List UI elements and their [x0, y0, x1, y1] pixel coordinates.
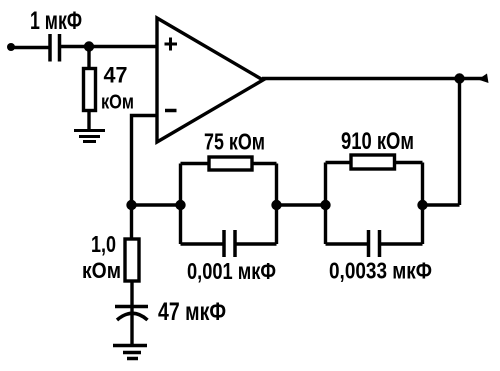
- resistor R2 1,0 кОм: [125, 239, 139, 281]
- op-amp + pin mark: [165, 38, 178, 51]
- wire R1 to ground: [87, 110, 90, 130]
- wire C3 to ground: [130, 314, 133, 346]
- svg-text:75 кОм: 75 кОм: [204, 129, 265, 155]
- RC1 bottom wire right: [237, 242, 277, 245]
- wire bus node down to R2: [130, 205, 133, 240]
- RC2 top wire left: [326, 161, 353, 164]
- svg-text:47: 47: [104, 63, 128, 88]
- svg-text:1 мкФ: 1 мкФ: [30, 7, 82, 35]
- output terminal tick: [478, 74, 489, 84]
- svg-text:910 кОм: 910 кОм: [341, 128, 414, 155]
- wire R2 to C3: [130, 281, 133, 312]
- RC2 bottom wire left: [326, 242, 368, 245]
- capacitor C4 0,0033 мкФ: [369, 230, 380, 257]
- wire C1 to op-amp + input: [61, 45, 158, 48]
- wire op-amp inverting input down to bus: [132, 116, 159, 206]
- RC2 top wire right: [394, 161, 423, 164]
- RC1 top wire left: [181, 162, 211, 165]
- svg-text:47 мкФ: 47 мкФ: [158, 298, 226, 326]
- op-amp - pin mark: [165, 109, 177, 113]
- wire input to C1: [11, 46, 51, 49]
- wire bus: inverting node to RC1 left: [132, 203, 181, 206]
- resistor R4 910 кОм: [351, 155, 395, 169]
- node RC2 right: [417, 200, 427, 210]
- capacitor C3 47 мкФ (polarized): [115, 307, 148, 321]
- node RC1 left: [175, 200, 185, 210]
- RC2 right vertical wire: [421, 163, 424, 245]
- wire RC1 right to RC2 left: [277, 203, 326, 206]
- capacitor C1 1 мкФ: [50, 34, 60, 62]
- svg-text:1,0: 1,0: [91, 231, 116, 257]
- wire to RC2 right node: [423, 203, 460, 206]
- RC1 top wire right: [251, 162, 277, 165]
- node RC1 right: [271, 200, 281, 210]
- input terminal: [7, 43, 15, 51]
- capacitor C2 0,001 мкФ: [224, 230, 235, 257]
- svg-text:0,0033 мкФ: 0,0033 мкФ: [329, 258, 432, 284]
- wire node A down to R1: [87, 47, 90, 68]
- node RC2 left: [320, 200, 330, 210]
- RC1 right vertical wire: [275, 164, 278, 245]
- ground (bottom): [113, 346, 147, 359]
- RC2 bottom wire right: [381, 242, 423, 245]
- svg-text:0,001 мкФ: 0,001 мкФ: [187, 258, 276, 284]
- RC1 left vertical wire: [179, 164, 182, 245]
- ground (top left): [74, 131, 105, 142]
- node inverting bus: [126, 200, 136, 210]
- wire output: [262, 77, 487, 80]
- resistor R1 47 кОм: [84, 69, 96, 111]
- resistor R3 75 кОм: [209, 157, 252, 170]
- op-amp U1: [157, 18, 263, 142]
- svg-text:кОм: кОм: [82, 258, 121, 283]
- node A (junction input): [84, 41, 94, 51]
- RC2 left vertical wire: [324, 163, 327, 245]
- RC1 bottom wire left: [181, 242, 223, 245]
- svg-text:кОм: кОм: [101, 92, 134, 114]
- wire output junction down: [458, 79, 461, 206]
- node output junction: [454, 73, 464, 83]
